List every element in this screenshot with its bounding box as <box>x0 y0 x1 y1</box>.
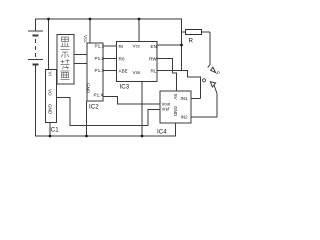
svg-text:Vout: Vout <box>162 101 172 106</box>
svg-text:IN2: IN2 <box>181 115 189 120</box>
svg-text:ABE: ABE <box>119 69 128 74</box>
svg-text:GND: GND <box>173 106 178 117</box>
svg-text:Vref: Vref <box>162 107 171 112</box>
svg-text:R0: R0 <box>119 57 125 62</box>
svg-text:GND: GND <box>86 83 91 94</box>
svg-text:IC4: IC4 <box>157 129 167 136</box>
svg-text:VI: VI <box>48 72 53 76</box>
svg-text:P1.3: P1.3 <box>95 68 105 73</box>
svg-text:P1.1: P1.1 <box>95 44 105 49</box>
svg-text:P: P <box>217 71 221 76</box>
svg-text:IC2: IC2 <box>89 104 99 111</box>
svg-text:5V: 5V <box>173 94 178 101</box>
svg-text:IC3: IC3 <box>120 84 130 91</box>
svg-text:IC1: IC1 <box>49 127 59 134</box>
svg-text:EN: EN <box>151 44 157 49</box>
svg-text:P1.2: P1.2 <box>95 56 105 61</box>
svg-text:P1.X: P1.X <box>94 92 104 97</box>
svg-text:IN1: IN1 <box>181 96 189 101</box>
svg-text:Vcc: Vcc <box>133 44 141 49</box>
svg-text:RL: RL <box>151 69 157 74</box>
svg-text:Vcc: Vcc <box>83 35 88 43</box>
svg-text:Vss: Vss <box>133 70 141 75</box>
svg-text:R: R <box>189 38 194 45</box>
svg-text:VO: VO <box>48 89 53 96</box>
svg-text:RI: RI <box>119 44 124 49</box>
svg-text:GND: GND <box>48 104 53 115</box>
svg-text:RW: RW <box>149 57 157 62</box>
